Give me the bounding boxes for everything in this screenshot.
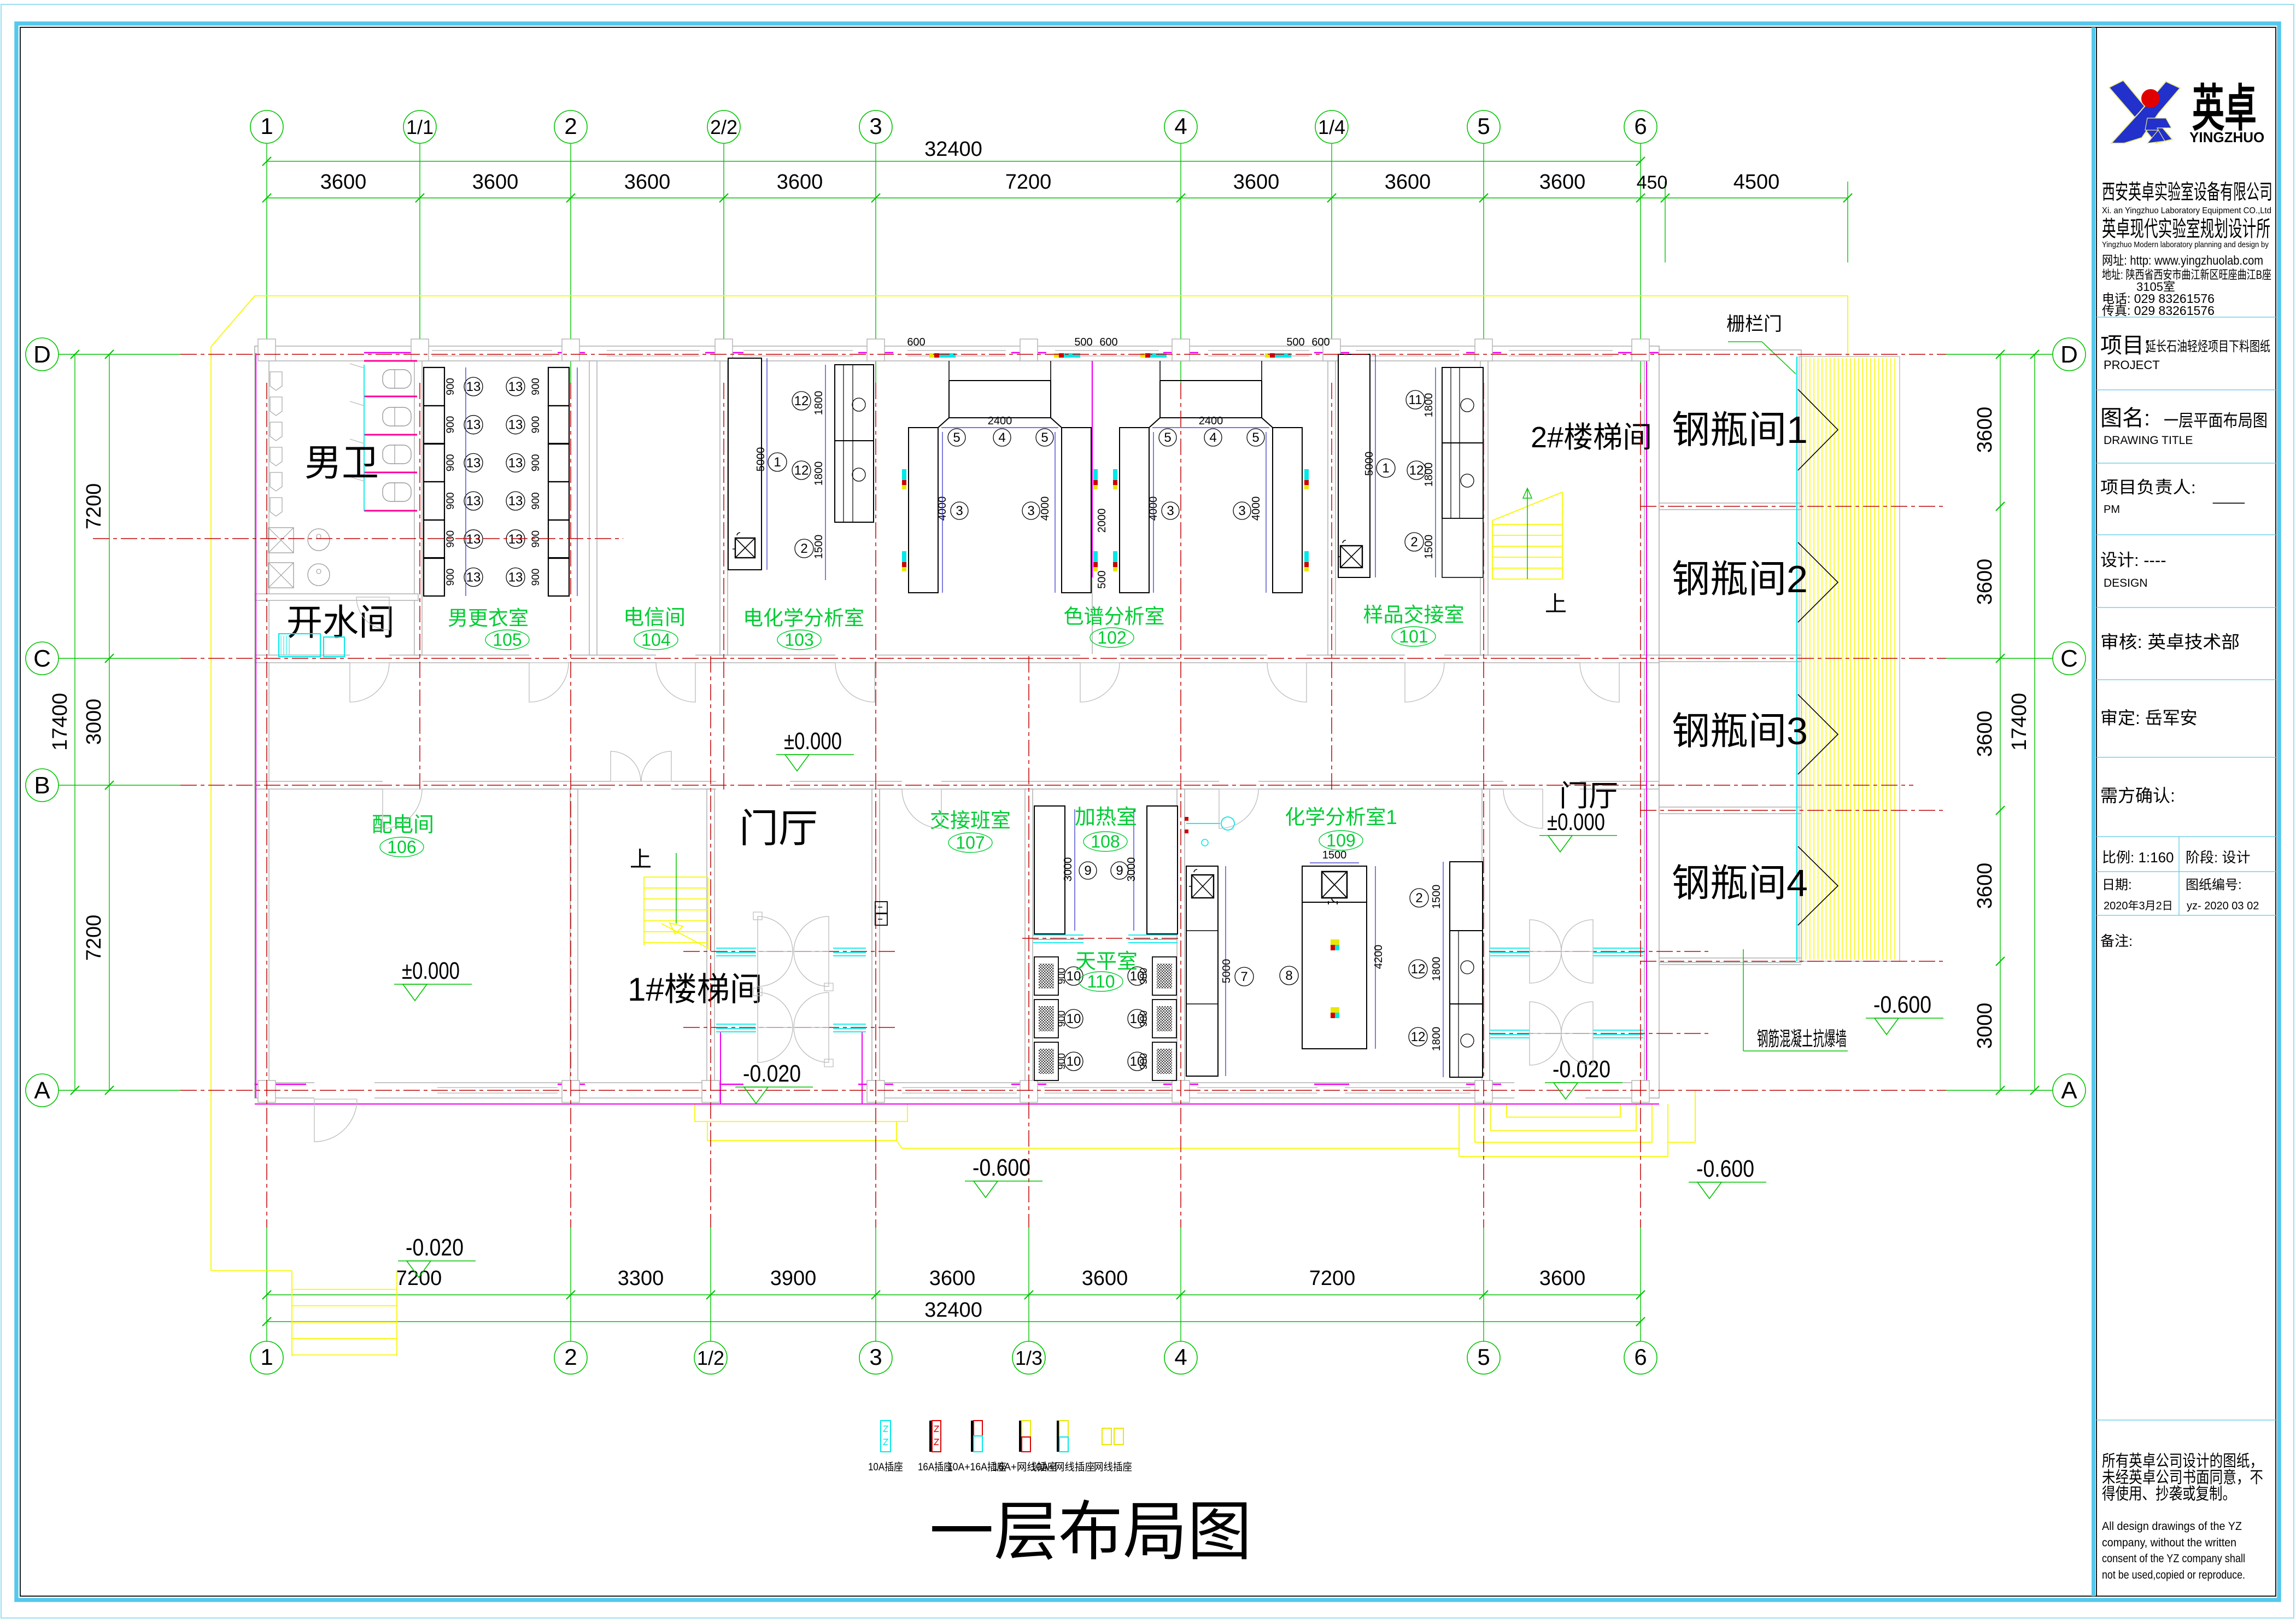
red centerline D (180, 354, 1946, 355)
toilet stall front cyan (364, 365, 365, 511)
circled 11 101 (1406, 390, 1425, 409)
door opening C wall (656, 654, 695, 664)
yellow terrace line center (902, 1148, 1459, 1149)
column pier top x=2436 (1323, 339, 1340, 361)
magenta bottom wall segment (558, 1084, 585, 1085)
axis circle 4 bottom (1164, 1341, 1197, 1374)
red centerline vertical lower x=1882 (1028, 656, 1029, 1228)
oval 110 (1079, 972, 1123, 991)
circled 12 101 (1407, 461, 1426, 480)
svg-text:13: 13 (508, 532, 523, 547)
urinal (270, 397, 282, 416)
corridor wall C (255, 655, 1659, 663)
axis line 6 green bottom (1640, 1228, 1641, 1341)
magenta lobby jamb right (862, 1032, 863, 1105)
svg-text:2: 2 (1415, 891, 1422, 906)
cylinder room gate chevron (1798, 389, 1838, 470)
axis circle 2/2 top (707, 110, 740, 143)
axis line B green left (58, 785, 180, 786)
circled 8 (1280, 966, 1298, 985)
fume hood circle 2 (852, 468, 865, 481)
locker cell x=1003 (548, 443, 569, 482)
svg-text:yz- 2020 03 02: yz- 2020 03 02 (2187, 900, 2259, 912)
svg-text:110: 110 (1087, 972, 1115, 991)
magenta line below bottom wall (255, 1103, 1659, 1105)
window top wall (1356, 350, 1460, 351)
svg-text:3600: 3600 (1539, 1267, 1586, 1290)
svg-text:900: 900 (445, 569, 456, 586)
balance table (1152, 957, 1176, 995)
dim extension 450 (1665, 182, 1666, 262)
wall locker|telecom (589, 361, 597, 655)
svg-text:900: 900 (445, 416, 456, 434)
svg-text:900: 900 (445, 530, 456, 548)
door opening C wall (529, 654, 569, 664)
axis circle 1 bottom (250, 1341, 283, 1374)
legend symbol 16A socket (929, 1421, 932, 1452)
svg-text:5: 5 (953, 430, 960, 445)
oval 102 (1090, 628, 1134, 647)
pass window 108|110 left (1033, 934, 1083, 936)
right lobby rail 2R (1593, 1030, 1643, 1031)
window top wall (1055, 350, 1159, 351)
svg-text:2: 2 (800, 541, 807, 556)
svg-text:5000: 5000 (1221, 959, 1233, 984)
stall door leaf (350, 477, 364, 481)
circled 7 (1235, 967, 1254, 986)
svg-text:审定: 岳军安: 审定: 岳军安 (2100, 708, 2198, 728)
svg-text:日期:: 日期: (2102, 878, 2132, 892)
locker dim line blue left (465, 367, 466, 596)
dim extension 4500 (1847, 182, 1848, 262)
column pier bottom x=1882 (1020, 1080, 1038, 1102)
toilet stall partition pink (364, 472, 417, 474)
circled 10 (1128, 1052, 1146, 1071)
svg-text:1: 1 (1382, 461, 1389, 476)
svg-text:900: 900 (530, 378, 542, 395)
svg-text:5: 5 (1252, 430, 1259, 445)
locker circled 13 (506, 377, 525, 396)
red centerline B (180, 785, 1913, 786)
svg-text:4000: 4000 (1250, 496, 1262, 521)
stair1 arrowhead yellow (670, 923, 683, 934)
island bench 109 (1302, 866, 1367, 1049)
svg-text:4: 4 (1174, 113, 1187, 139)
door opening bottom wall (716, 1082, 868, 1099)
yellow center entrance step U1 (695, 1105, 907, 1121)
title block separator (2096, 836, 2276, 837)
right lobby rail 1R (1593, 948, 1643, 949)
blast wall leader horizontal (1743, 1050, 1848, 1051)
svg-text:3600: 3600 (929, 1267, 976, 1290)
balance table stipple (1039, 1049, 1054, 1074)
svg-text:3600: 3600 (1973, 711, 1996, 757)
svg-text:10: 10 (1067, 1012, 1081, 1026)
boiler hatch lines (281, 636, 289, 655)
axis circle 1 top (250, 110, 283, 143)
svg-text:consent of the YZ company shal: consent of the YZ company shall (2102, 1552, 2245, 1565)
svg-text:化学分析室1: 化学分析室1 (1285, 806, 1397, 828)
red centerline vertical x=488 (266, 383, 267, 1228)
red line cylinder room 4 bottom (1640, 961, 1946, 962)
svg-text:1500: 1500 (813, 535, 825, 559)
red centerline vertical x=2160 (1180, 383, 1181, 1228)
svg-text:3600: 3600 (472, 171, 519, 194)
svg-text:900: 900 (1056, 1053, 1067, 1070)
lobby butterfly leaf DL (758, 951, 793, 986)
locker cell x=1003 (548, 520, 569, 558)
axis line A green left (58, 1090, 180, 1091)
svg-text:104: 104 (641, 630, 670, 650)
bottom exterior wall (255, 1083, 1659, 1098)
axis circle 3 bottom (859, 1341, 892, 1374)
svg-text:5: 5 (1477, 1344, 1490, 1370)
locker circled 13 (464, 568, 483, 587)
svg-text:-0.600: -0.600 (1696, 1155, 1754, 1182)
yellow entrance step U 2 (1475, 1104, 1652, 1142)
boiler unit cyan (279, 634, 320, 657)
wall sample|stair2 (1480, 361, 1488, 655)
axis line 1/1 green top (419, 143, 420, 383)
axis circle 4 top (1164, 110, 1197, 143)
title block separator (2096, 317, 2276, 318)
stall door leaf (350, 364, 364, 368)
left exterior wall (255, 346, 269, 1098)
title block separator (2096, 389, 2276, 390)
legend symbol 10A+net socket (1057, 1421, 1059, 1452)
cylinder room gate chevron (1798, 542, 1838, 622)
svg-text:3600: 3600 (1973, 863, 1996, 909)
cabinet 109 right (1450, 862, 1483, 1077)
locker cell x=775 (424, 482, 444, 520)
svg-text:英卓现代实验室规划设计所: 英卓现代实验室规划设计所 (2102, 217, 2270, 241)
axis line A green right (1946, 1090, 2053, 1091)
window bottom wall (1044, 1087, 1170, 1088)
column pier bottom x=1300 (702, 1080, 719, 1102)
stall door leaf (350, 401, 364, 406)
title block left edge cyan (2092, 27, 2095, 1596)
wall lobby|shift (872, 789, 880, 1083)
svg-text:3000: 3000 (1126, 857, 1138, 882)
svg-text:2400: 2400 (988, 415, 1012, 427)
lobby butterfly leaf UR (794, 992, 829, 1027)
toilet stall partition pink (364, 510, 417, 512)
door opening bottom wall (1514, 1082, 1585, 1099)
locker circled 13 (464, 453, 483, 472)
door arc C wall (1267, 663, 1307, 702)
axis circle 1/1 top (403, 110, 436, 143)
bench 108 left (1034, 806, 1065, 934)
svg-text:3600: 3600 (777, 171, 823, 194)
yellow offset line top (255, 295, 1848, 296)
right lobby butterfly leaf UL (1530, 920, 1561, 951)
bottom segment dim line (267, 1294, 1641, 1295)
svg-text:not be used,copied or reproduc: not be used,copied or reproduce. (2102, 1569, 2245, 1581)
dim 5000 blue line 103 (766, 358, 768, 570)
svg-text:栅栏门: 栅栏门 (1726, 314, 1782, 335)
svg-text:得使用、抄袭或复制。: 得使用、抄袭或复制。 (2102, 1485, 2236, 1503)
yellow offset line right drop (1847, 296, 1848, 357)
eyewash red marks (1185, 817, 1188, 821)
balance table stipple (1157, 963, 1172, 989)
svg-text:3600: 3600 (624, 171, 671, 194)
column pier top x=488 (258, 339, 276, 361)
dim 5000 line 101 (1375, 354, 1376, 577)
svg-text:32400: 32400 (924, 138, 982, 161)
red centerline vertical x=1602 (875, 383, 876, 1228)
svg-text:2: 2 (564, 113, 577, 139)
window bottom wall (437, 1087, 558, 1088)
svg-text:11: 11 (1409, 393, 1422, 407)
axis line 1 green top (266, 143, 267, 383)
wall electrochem|chromato gray (1092, 361, 1093, 655)
door arc C wall (1405, 663, 1444, 702)
red centerline vertical x=1044 (570, 383, 571, 1228)
svg-text:17400: 17400 (2008, 693, 2031, 751)
svg-text:13: 13 (466, 532, 481, 547)
svg-text:4: 4 (998, 430, 1005, 445)
pass window 108|110 right (1128, 934, 1178, 936)
title block left black line (2096, 27, 2097, 1596)
svg-text:13: 13 (466, 418, 481, 433)
logo red dot (2141, 89, 2160, 108)
locker circled 13 (506, 453, 525, 472)
right lobby butterfly leaf DR (1561, 1033, 1593, 1065)
cabinet 101 (1442, 367, 1483, 518)
cylinder room divider wall (1659, 807, 1801, 814)
svg-text:4: 4 (1209, 430, 1216, 445)
window top wall (743, 350, 853, 351)
locker cell x=775 (424, 520, 444, 558)
magenta top wall segment (1163, 352, 1198, 354)
svg-text:7200: 7200 (83, 915, 106, 961)
svg-text:2: 2 (1410, 535, 1418, 550)
svg-text:450: 450 (1637, 172, 1668, 193)
socket mark (1113, 469, 1117, 480)
magenta bottom wall segment (858, 1084, 893, 1085)
svg-text:12: 12 (1411, 1030, 1426, 1044)
wash sink X (268, 528, 294, 553)
round basin (308, 529, 330, 551)
wall telecom|electrochem (720, 361, 728, 655)
sink bench7 (1192, 875, 1214, 898)
circled 2 101 (1405, 533, 1424, 551)
svg-text:3: 3 (869, 113, 882, 139)
magenta right wall line (1646, 354, 1647, 1083)
fume hood 103 (835, 365, 874, 522)
fume hood circle 1 (852, 398, 865, 411)
svg-text:13: 13 (466, 455, 481, 470)
svg-text:1: 1 (260, 1344, 273, 1370)
bench cluster 102 (1160, 381, 1262, 418)
svg-text:32400: 32400 (924, 1299, 982, 1322)
svg-text:YINGZHUO: YINGZHUO (2189, 129, 2264, 145)
dim 5000 line 109 (1225, 866, 1226, 1076)
left segment dim line (109, 354, 110, 1090)
svg-text:一层平面布局图: 一层平面布局图 (2164, 411, 2268, 430)
window top wall (907, 350, 1006, 351)
locker circled 13 (464, 416, 483, 434)
socket mark h (1054, 353, 1059, 358)
svg-text:阶段: 设计: 阶段: 设计 (2186, 849, 2250, 866)
svg-text:项目负责人:: 项目负责人: (2100, 478, 2196, 497)
svg-text:900: 900 (1056, 968, 1067, 984)
svg-text:西安英卓实验室设备有限公司: 西安英卓实验室设备有限公司 (2102, 181, 2272, 204)
door arc B wall (383, 789, 422, 828)
svg-text:102: 102 (1097, 628, 1126, 647)
door arc B wall (1503, 789, 1543, 828)
svg-text:900: 900 (445, 492, 456, 510)
axis circle 6 top (1624, 110, 1657, 143)
svg-text:一层布局图: 一层布局图 (929, 1496, 1252, 1568)
toilet stall top pink (364, 360, 417, 362)
dim line 108 left (1074, 809, 1075, 931)
urinal (270, 472, 282, 491)
door opening C wall (1580, 654, 1619, 664)
svg-text:2020年3月2日: 2020年3月2日 (2104, 899, 2173, 912)
socket mark (902, 551, 906, 562)
red line right lobby door2 (1489, 1033, 1711, 1034)
svg-text:-0.600: -0.600 (973, 1154, 1030, 1181)
axis circle 2 bottom (554, 1341, 587, 1374)
svg-text:设计: ----: 设计: ---- (2100, 551, 2166, 570)
svg-text:500: 500 (1286, 336, 1304, 348)
svg-text:3600: 3600 (1082, 1267, 1128, 1290)
svg-text:图纸编号:: 图纸编号: (2186, 878, 2242, 892)
locker circled 13 (506, 568, 525, 587)
svg-text:±0.000: ±0.000 (1547, 809, 1605, 836)
circled 12 103 (792, 392, 811, 410)
magenta bottom wall segment (255, 1084, 306, 1085)
svg-text:1500: 1500 (1431, 885, 1443, 909)
lobby butterfly leaf UL (758, 916, 793, 951)
axis circle 1/3 bottom (1012, 1341, 1045, 1374)
yellow offset line left (210, 347, 212, 1271)
svg-text:5: 5 (1477, 113, 1490, 139)
magenta top wall segment (558, 352, 585, 354)
circled 10 (1064, 967, 1083, 985)
svg-text:审核: 英卓技术部: 审核: 英卓技术部 (2100, 632, 2240, 652)
svg-text:项目:: 项目: (2100, 334, 2150, 358)
axis line 3 green bottom (875, 1228, 876, 1341)
locker cell x=1003 (548, 558, 569, 596)
door opening C wall (835, 654, 875, 664)
toilet fixture inner (394, 483, 395, 501)
svg-text:备注:: 备注: (2100, 933, 2133, 949)
bench 103 wall bench (728, 358, 762, 570)
door arc C wall (529, 663, 569, 702)
steps bottom-left (291, 1271, 292, 1356)
svg-text:13: 13 (466, 570, 481, 585)
balance table stipple (1157, 1006, 1172, 1031)
boiler unit cyan 2 (324, 637, 344, 657)
right lobby butterfly leaf UR (1561, 1002, 1593, 1033)
svg-text:4200: 4200 (1373, 945, 1385, 969)
lobby rail row2 L (716, 1024, 756, 1025)
circled 1 103 (768, 453, 787, 471)
title block separator (2096, 757, 2276, 758)
magenta top wall segment (1466, 352, 1501, 354)
svg-text:配电间: 配电间 (372, 814, 434, 837)
cylinder room gate chevron (1798, 694, 1838, 774)
title block separator (2096, 871, 2276, 872)
svg-text:地址: 陕西省西安市曲江新区旺座曲江B座: 地址: 陕西省西安市曲江新区旺座曲江B座 (2102, 268, 2271, 282)
right lobby butterfly leaf DL (1530, 951, 1561, 983)
socket mark h (1265, 353, 1270, 358)
circled 12b 109 (1409, 1027, 1427, 1046)
socket mark (1093, 469, 1098, 480)
oval 108 (1083, 832, 1127, 851)
door opening B wall (902, 780, 941, 790)
window top wall (607, 350, 700, 351)
cylinder rooms bottom wall (1659, 957, 1801, 959)
bench 7 wall bench (1186, 866, 1218, 1076)
circled 12 103 (792, 461, 811, 480)
column pier top x=1882 (1020, 339, 1038, 361)
column pier bottom x=1044 (562, 1080, 579, 1102)
yellow line right lobby side2 (1668, 1142, 1695, 1143)
toilet fixture inner (394, 407, 395, 426)
socket mark (1304, 469, 1309, 480)
svg-text:____: ____ (2212, 488, 2245, 504)
svg-text:天平室: 天平室 (1075, 950, 1138, 973)
title block separator (2096, 915, 2276, 916)
magenta top wall segment (1618, 352, 1659, 354)
svg-text:900: 900 (445, 454, 456, 472)
toilet fixture inner (394, 370, 395, 388)
door opening B wall (716, 780, 790, 790)
legend symbol net socket (1102, 1428, 1111, 1445)
logo YZ mark small z (2145, 118, 2171, 143)
right lobby rail 1L (1490, 948, 1530, 949)
window bottom wall (1197, 1087, 1317, 1088)
svg-text:传真: 029 83261576: 传真: 029 83261576 (2102, 303, 2215, 318)
magenta top wall segment (1011, 352, 1046, 354)
wall chromato|sample (1328, 361, 1336, 655)
round basin (308, 564, 330, 586)
svg-text:10: 10 (1067, 1054, 1081, 1069)
right lobby butterfly leaf UR (1561, 920, 1593, 951)
electrical panel boxes lobby (875, 902, 887, 913)
svg-text:101: 101 (1399, 627, 1428, 646)
svg-text:样品交接室: 样品交接室 (1363, 604, 1465, 626)
red line toilets row (93, 538, 623, 539)
red centerline vertical upper x=2436 (1331, 383, 1332, 790)
svg-text:900: 900 (530, 492, 542, 510)
window top wall (1509, 350, 1613, 351)
svg-text:±0.000: ±0.000 (402, 957, 460, 984)
title block column divider (2178, 837, 2180, 915)
svg-text:7200: 7200 (396, 1267, 442, 1290)
svg-text:10A插座: 10A插座 (868, 1461, 903, 1473)
svg-text:900: 900 (445, 378, 456, 395)
svg-text:1500: 1500 (1322, 849, 1347, 861)
svg-text:3: 3 (1027, 504, 1034, 518)
red line lobby door row2 (683, 1027, 897, 1028)
svg-text:13: 13 (508, 455, 523, 470)
svg-text:13: 13 (508, 570, 523, 585)
svg-text:网址: http: www.yingzhuolab.com: 网址: http: www.yingzhuolab.com (2102, 253, 2263, 267)
wall power|stair1 (570, 789, 578, 1083)
svg-text:3: 3 (1167, 504, 1174, 518)
circled 12a 109 (1409, 960, 1427, 978)
magenta bottom wall segment (1466, 1084, 1501, 1085)
sink 101 (1340, 546, 1362, 568)
stair2 arrow line (1527, 488, 1528, 579)
stair2 diagonal (1492, 492, 1562, 521)
axis circle 1/2 bottom (694, 1341, 727, 1374)
svg-text:12: 12 (1411, 962, 1426, 977)
